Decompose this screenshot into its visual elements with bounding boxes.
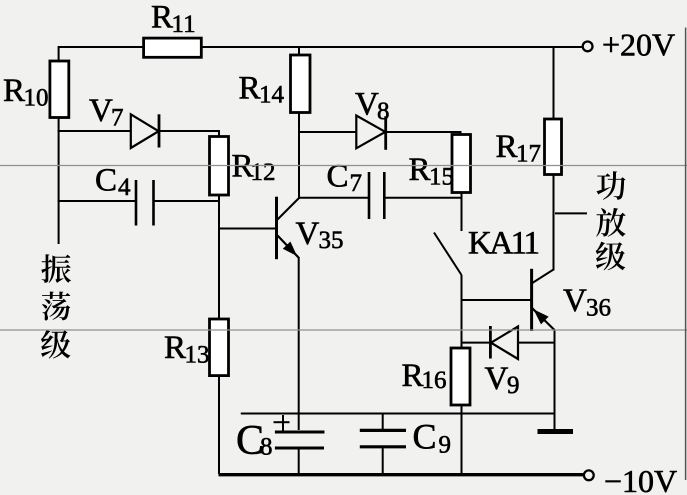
svg-text:13: 13 — [185, 341, 210, 368]
svg-text:R: R — [496, 129, 518, 165]
wire V9 left — [461, 342, 491, 344]
switch KA11 arm — [434, 233, 462, 276]
resistor R14 — [291, 55, 311, 113]
wire R17 top — [553, 46, 555, 119]
svg-text:C: C — [413, 417, 437, 457]
svg-text:7: 7 — [350, 170, 363, 197]
svg-text:V: V — [89, 93, 113, 129]
svg-text:R: R — [3, 73, 25, 109]
svg-text:35: 35 — [319, 227, 344, 254]
wire C4 right — [154, 200, 221, 202]
transistor V36 base bar — [530, 269, 533, 331]
transistor V36 collector stroke — [532, 270, 554, 284]
transistor V35 emitter stroke — [278, 236, 300, 259]
capacitor C4 — [135, 180, 138, 226]
transistor V36 emitter stroke — [532, 308, 555, 331]
svg-text:+20V: +20V — [602, 26, 675, 62]
wire below R13 — [218, 376, 220, 475]
amplifier stage char gong — [597, 171, 626, 200]
wire V36 collector to R17 — [553, 175, 555, 271]
wire below R16 — [461, 405, 463, 474]
resistor R16 — [451, 348, 470, 405]
wire V35 emitter column — [298, 258, 300, 430]
svg-text:C: C — [95, 163, 117, 199]
svg-text:V: V — [563, 283, 587, 319]
amplifier stage char ji — [596, 242, 626, 271]
svg-text:12: 12 — [251, 159, 276, 186]
wire R12 to R13 column — [218, 195, 220, 319]
wire switch to R16 — [461, 275, 463, 348]
wire C4 left — [58, 200, 136, 202]
diode V7 — [131, 114, 159, 148]
wire R12 top stub — [218, 130, 220, 137]
wire R15 bottom to switch contact — [461, 193, 463, 232]
svg-text:R: R — [239, 70, 261, 106]
capacitor C8 (electrolytic) — [275, 431, 325, 434]
amplifier stage char fang — [596, 208, 625, 237]
transistor V35 emitter arrow — [283, 242, 297, 257]
transistor V36 emitter arrow — [533, 309, 548, 324]
svg-text:14: 14 — [259, 82, 285, 109]
wire C7 right — [385, 197, 463, 199]
grey rule line 1 — [0, 165, 687, 167]
wire R15 top stub — [460, 131, 462, 135]
svg-text:16: 16 — [422, 367, 447, 394]
svg-text:4: 4 — [118, 174, 131, 201]
svg-text:−10V: −10V — [604, 463, 677, 495]
svg-text:9: 9 — [439, 432, 452, 459]
resistor R11 — [144, 38, 202, 57]
diode V9 (points left) — [491, 327, 518, 360]
svg-text:R: R — [164, 330, 186, 366]
wire V36 emitter to ground — [554, 330, 556, 429]
wire V7 right to node — [159, 130, 220, 132]
oscillator stage char ji — [41, 330, 71, 359]
wire V7 left — [58, 130, 131, 132]
wire V36 base — [462, 299, 532, 301]
svg-text:11: 11 — [172, 11, 196, 38]
wire V9 right — [517, 342, 556, 344]
C8 plus polarity mark — [274, 421, 290, 423]
wire V8 right — [386, 131, 462, 133]
diode V8 — [356, 116, 385, 149]
wire R14 top stub — [298, 46, 300, 54]
resistor R13 — [210, 319, 229, 376]
wire C8 bottom stem — [298, 449, 300, 476]
wire V35 base — [219, 228, 276, 230]
tick toward amplifier stage label — [555, 212, 587, 214]
resistor R17 — [545, 119, 562, 175]
svg-text:15: 15 — [429, 163, 454, 190]
svg-text:V: V — [296, 216, 320, 252]
-10V terminal — [584, 470, 594, 480]
capacitor C9 — [360, 429, 406, 432]
svg-text:7: 7 — [111, 104, 124, 131]
svg-text:R: R — [409, 152, 431, 188]
wire mid rail C8 C9 — [241, 413, 555, 415]
wire R14 to collector node — [298, 112, 300, 199]
wire V8 left — [298, 131, 356, 133]
resistor R15 — [452, 135, 471, 193]
svg-text:8: 8 — [377, 98, 390, 125]
svg-text:V: V — [355, 87, 379, 123]
svg-text:17: 17 — [516, 140, 541, 167]
oscillator stage char zhen — [41, 254, 71, 283]
svg-text:KA11: KA11 — [468, 226, 538, 262]
resistor R12 — [210, 137, 229, 196]
wire left column below R10 — [58, 118, 60, 245]
wire collector node to C7 — [298, 197, 369, 199]
capacitor C7 — [368, 172, 371, 219]
transistor V35 base bar — [275, 197, 278, 260]
oscillator stage char dang — [42, 292, 70, 321]
wire top rail left — [59, 46, 144, 48]
wire R10 top stub — [58, 46, 60, 61]
ground — [538, 429, 574, 434]
resistor R10 — [50, 61, 69, 118]
svg-text:36: 36 — [586, 294, 611, 321]
+20V terminal — [583, 42, 593, 52]
wire top rail right — [201, 46, 583, 48]
svg-text:R: R — [402, 358, 424, 394]
wire bottom rail — [219, 473, 585, 476]
svg-text:10: 10 — [24, 84, 49, 111]
svg-text:R: R — [151, 0, 173, 36]
transistor V35 collector stroke — [278, 198, 300, 220]
grey rule line 2 — [0, 329, 687, 331]
wire C9 bottom stem — [382, 448, 384, 475]
svg-text:9: 9 — [507, 372, 520, 399]
page border right edge — [685, 28, 687, 481]
svg-text:V: V — [485, 361, 509, 397]
svg-text:C: C — [327, 159, 349, 195]
svg-text:8: 8 — [260, 434, 273, 461]
wire C9 top stem — [382, 413, 384, 430]
